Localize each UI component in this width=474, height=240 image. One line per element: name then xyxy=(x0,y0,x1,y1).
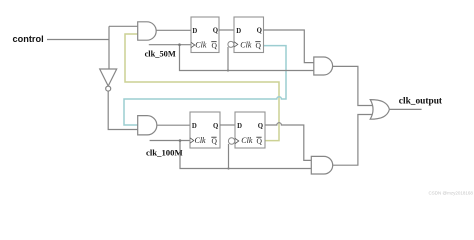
svg-text:Q: Q xyxy=(258,123,263,130)
junction clk_50M branch xyxy=(227,69,229,71)
svg-text:Clk: Clk xyxy=(195,136,207,145)
d flip-flop FF1 xyxy=(191,17,219,53)
svg-text:Q: Q xyxy=(257,28,262,35)
wire clk_100M lead to FF3 Clk xyxy=(150,140,190,142)
junction clk_100M xyxy=(179,139,182,142)
svg-text:clk_100M: clk_100M xyxy=(146,147,183,157)
wire AND3 output to OR top input xyxy=(333,66,375,105)
svg-text:D: D xyxy=(192,123,197,130)
d flip-flop FF3 xyxy=(190,112,220,148)
svg-text:Q: Q xyxy=(212,136,218,145)
d flip-flop FF2 xyxy=(228,17,264,53)
wire AND1 output to FF1 D xyxy=(156,29,191,31)
and-gate AND4 xyxy=(311,156,332,174)
svg-text:clk_output: clk_output xyxy=(399,96,443,106)
wire control lead xyxy=(47,39,109,41)
inverter U1 xyxy=(100,69,117,91)
wire khaki feedback from FF4 Qbar to AND1 input xyxy=(125,34,279,141)
svg-text:CSDN @mzy2018168: CSDN @mzy2018168 xyxy=(429,191,474,196)
and-gate AND1 xyxy=(138,22,157,40)
wire branch up to FF2 clock bubble xyxy=(227,47,229,71)
svg-text:Q: Q xyxy=(212,41,218,50)
and-gate AND2 xyxy=(138,116,157,135)
svg-text:control: control xyxy=(13,34,44,44)
wire AND2 output to FF3 D xyxy=(157,124,190,126)
wire cyan feedback from FF2 Qbar to AND2 input xyxy=(124,46,286,125)
wire FF4 Q to AND4 top input with jump over khaki xyxy=(265,123,311,161)
svg-text:Clk: Clk xyxy=(195,41,207,50)
svg-text:Q: Q xyxy=(257,136,263,145)
junction clk_100M branch xyxy=(227,167,229,169)
wire FF1 Q to FF2 D xyxy=(219,29,234,31)
wire AND4 output to OR bottom input xyxy=(333,115,375,166)
wire FF3 Q to FF4 D xyxy=(220,124,235,126)
wire clk_100M branch to AND4 input xyxy=(180,141,311,169)
svg-text:clk_50M: clk_50M xyxy=(145,49,176,58)
wire control to AND1 top input xyxy=(109,25,138,27)
svg-text:D: D xyxy=(192,28,197,35)
wire control vertical to inverter xyxy=(108,26,110,69)
wire FF2 Q to AND3 top input xyxy=(264,30,314,63)
wire clk_50M branch to AND3 input xyxy=(180,45,314,71)
svg-text:Clk: Clk xyxy=(241,136,253,145)
svg-text:Q: Q xyxy=(213,28,218,35)
wire OR output xyxy=(389,108,421,110)
svg-text:Clk: Clk xyxy=(240,41,252,50)
or-gate OR1 xyxy=(370,100,389,120)
wire inverter output to AND2 input xyxy=(108,91,138,129)
wire clk_50M lead to FF1 Clk xyxy=(149,44,191,46)
svg-text:Q: Q xyxy=(213,123,218,130)
svg-text:D: D xyxy=(237,123,242,130)
svg-text:Q: Q xyxy=(256,41,262,50)
and-gate AND3 xyxy=(314,57,333,75)
junction clk_50M xyxy=(178,43,181,46)
svg-text:D: D xyxy=(236,28,241,35)
d flip-flop FF4 xyxy=(228,112,265,148)
wire branch up to FF4 clock bubble xyxy=(228,144,230,169)
